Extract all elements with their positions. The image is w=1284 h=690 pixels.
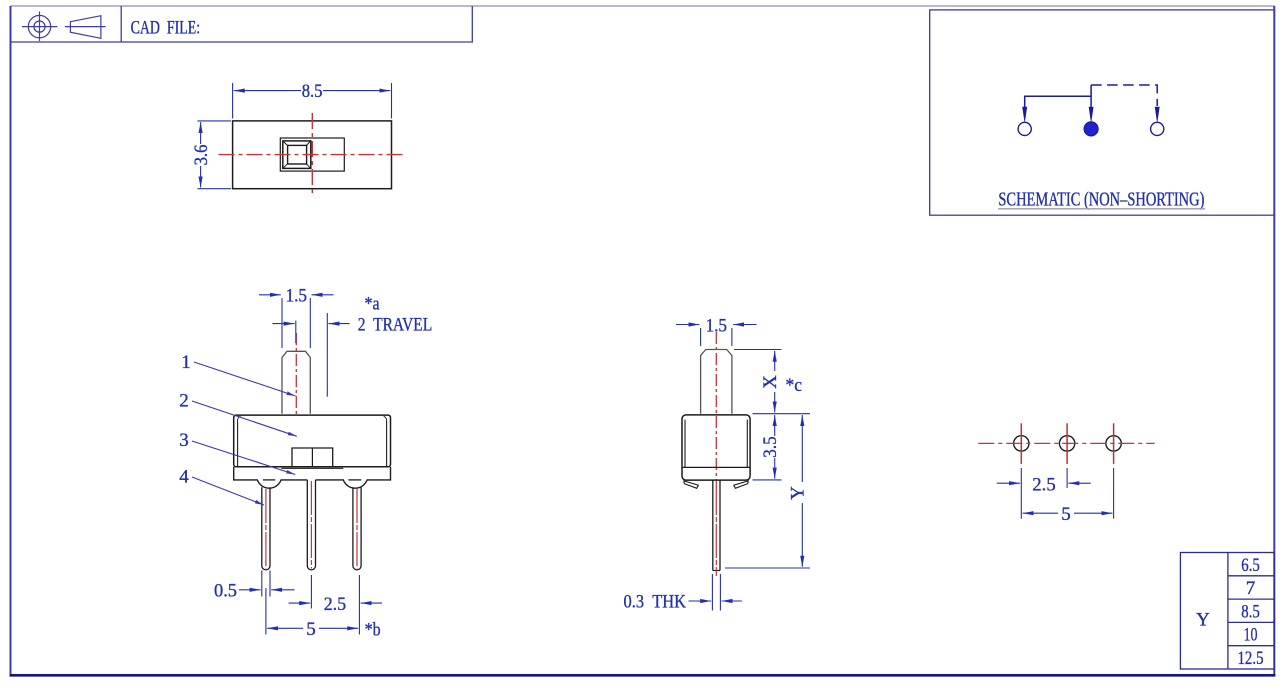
top view vertical centerline [311, 113, 313, 197]
side body seam lines [684, 420, 686, 468]
top view slot [280, 138, 344, 171]
side pin [712, 480, 714, 570]
dimension 8.5 extension lines [232, 83, 234, 119]
dimension 2.5 extension lines [310, 575, 312, 609]
X dim extension lines [734, 349, 782, 351]
pin 3 (right) [353, 487, 361, 570]
front center contact bump [292, 448, 333, 467]
svg-text:2: 2 [179, 391, 189, 412]
front base mid ledge [281, 467, 343, 469]
svg-text:3: 3 [179, 430, 189, 451]
dimension X [774, 351, 776, 371]
front body seam lines [237, 422, 239, 467]
projection symbol cone [65, 16, 106, 39]
title block box [11, 6, 473, 42]
dimension 3.5 [774, 415, 776, 436]
dimension 1.5 side [676, 324, 699, 326]
svg-text:12.5: 12.5 [1238, 648, 1264, 669]
pcb hole 2 [1059, 436, 1074, 451]
page border right [1273, 6, 1275, 676]
schematic dashed wire [1091, 85, 1157, 106]
side mounting lug left [684, 481, 698, 488]
dimension 1.5 front extension lines [281, 298, 283, 348]
schematic terminal 1 (open circle left) [1018, 122, 1031, 135]
dimension 2.5 [289, 602, 311, 604]
projection symbol circles [22, 12, 58, 42]
page border top [11, 5, 1275, 7]
svg-text:SCHEMATIC (NON–SHORTING): SCHEMATIC (NON–SHORTING) [998, 190, 1204, 211]
dimension Y [801, 415, 803, 482]
svg-text:3.6: 3.6 [191, 145, 212, 166]
svg-text:2.5: 2.5 [1032, 474, 1055, 495]
pcb dimension 2.5 [997, 482, 1020, 484]
svg-text:1: 1 [181, 352, 191, 373]
svg-text:1.5: 1.5 [286, 286, 307, 307]
pin 1 (left) [262, 487, 270, 570]
top view knob chamfer diagonals [284, 142, 311, 168]
svg-text:5: 5 [1061, 504, 1071, 525]
dimension 8.5 [234, 90, 301, 92]
dimension Y extension line bottom [725, 567, 810, 569]
schematic box [930, 10, 1275, 215]
page border left [10, 6, 12, 676]
svg-text:0.3 THK: 0.3 THK [624, 592, 687, 613]
svg-text:3.5: 3.5 [760, 436, 781, 457]
pcb dim extension lines [1020, 468, 1022, 519]
schematic arrow to terminal 3 [1155, 107, 1159, 122]
dimension 0.5 extension lines [261, 571, 263, 597]
travel extent extension line [326, 313, 328, 397]
top view knob outer square [283, 141, 311, 169]
travel extension line (knob center) [295, 321, 297, 343]
dimension 3.6 extension lines [198, 120, 232, 122]
svg-text:*b: *b [365, 620, 381, 641]
side view centerline [715, 332, 717, 480]
schematic terminal 3 (open circle right) [1151, 122, 1164, 135]
svg-text:Y: Y [1196, 610, 1210, 631]
svg-text:5: 5 [306, 619, 316, 640]
svg-text:1.5: 1.5 [706, 315, 727, 336]
pcb horizontal centerline [978, 442, 1154, 444]
svg-text:*c: *c [786, 375, 803, 396]
front knob [282, 351, 310, 414]
svg-text:2 TRAVEL: 2 TRAVEL [358, 314, 433, 335]
front knob centerline [295, 333, 297, 417]
svg-text:CAD FILE:: CAD FILE: [131, 18, 201, 39]
side knob [701, 350, 732, 414]
hidden edge dashes in bumps [263, 479, 275, 481]
side pin centerline [715, 481, 717, 576]
schematic solid wire [1025, 85, 1091, 107]
svg-text:Y: Y [788, 486, 809, 500]
svg-text:X: X [760, 375, 781, 389]
top view horizontal centerline [219, 154, 407, 156]
front body outline [234, 415, 391, 467]
schematic arrow to terminal 2 [1089, 107, 1093, 122]
table frame [1180, 553, 1274, 670]
page border bottom [10, 674, 1276, 677]
dimension 1.5 side extension lines [700, 328, 702, 346]
svg-text:4: 4 [179, 467, 189, 488]
pcb hole 3 [1106, 436, 1121, 451]
schematic terminal 2 (filled circle center) [1084, 122, 1098, 136]
dimension 5 extension line [265, 588, 267, 635]
dimension 5 [267, 627, 303, 629]
svg-text:7: 7 [1246, 578, 1256, 599]
svg-text:10: 10 [1244, 625, 1258, 646]
pcb hole 1 [1014, 436, 1029, 451]
dimension 1.5 front [259, 294, 281, 296]
svg-text:8.5: 8.5 [1241, 601, 1260, 622]
dimension 2 TRAVEL [273, 323, 295, 325]
side body outline [682, 415, 750, 480]
dimension 3.6 [200, 122, 202, 144]
pin 2 (center) [307, 480, 315, 570]
pcb hole vertical centerlines [1020, 423, 1022, 464]
title block divider [120, 6, 122, 42]
svg-text:0.5: 0.5 [214, 581, 237, 602]
top view body outline [233, 121, 392, 189]
schematic arrow to terminal 1 [1023, 107, 1027, 122]
dimension 0.3 THK extension lines [711, 574, 713, 611]
svg-text:8.5: 8.5 [302, 81, 323, 102]
svg-text:*a: *a [365, 294, 380, 315]
dimension 3.5 extension line [753, 479, 782, 481]
svg-text:6.5: 6.5 [1241, 555, 1260, 576]
pcb dimension 5 [1023, 512, 1059, 514]
top view knob inner square [288, 145, 307, 164]
svg-text:2.5: 2.5 [324, 594, 346, 615]
side mounting lug right [734, 481, 748, 488]
front base skirt [234, 467, 391, 488]
